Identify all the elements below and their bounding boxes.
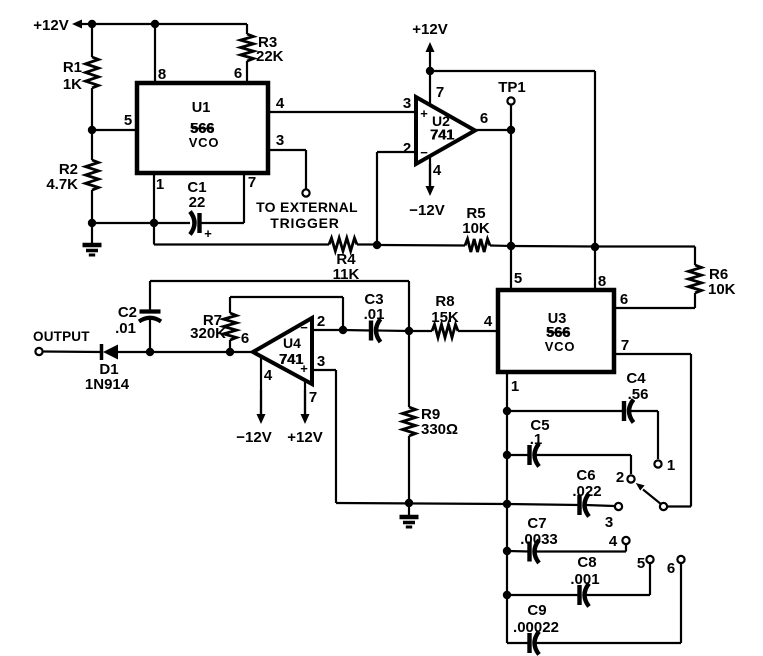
ground symbol left [83,245,102,255]
svg-text:3: 3 [605,514,613,531]
+12V supply label top-left [33,17,92,34]
svg-text:15K: 15K [431,309,459,326]
svg-text:.56: .56 [628,386,649,403]
resistor R1 [63,57,99,93]
switch contact 4 [609,533,630,550]
pin label 1 U1 [156,176,164,193]
wire ground stem [91,223,93,245]
wire R7 rail drop [342,297,344,330]
wire C1 to pin7 [202,222,245,224]
wire U1 pin3 horizontal [268,149,306,151]
svg-text:330Ω: 330Ω [421,421,458,438]
wire U2 pin2 vertical [376,152,378,245]
wire U4 pin2 to node [312,329,343,331]
svg-text:C7: C7 [527,515,546,532]
svg-text:3: 3 [317,353,325,370]
pin label 3 U2 [403,95,411,112]
wire C4 to contact1 [630,411,658,459]
svg-text:OUTPUT: OUTPUT [33,329,90,344]
wire right rail vertical [594,71,596,247]
svg-text:8: 8 [158,66,166,83]
svg-text:5: 5 [124,112,132,129]
node R4-R5 junction [373,241,381,249]
terminal OUTPUT [35,348,42,355]
wire U3 pin1 bus [506,372,508,643]
node ground junction left [88,219,96,227]
wire R4 node to R5 [377,244,465,247]
svg-text:1K: 1K [63,76,82,93]
pin label 7 U4 [309,389,317,406]
wire C9 row left [507,642,529,644]
wire top +12V rail [90,23,247,25]
ground symbol center [400,517,419,527]
resistor R5 [462,205,490,252]
resistor R2 [46,160,98,193]
switch contact 3 [605,503,622,531]
pin label 8 U1 [158,66,166,83]
svg-text:TRIGGER: TRIGGER [270,215,339,231]
pin label 4 U3 [484,313,493,330]
wire C2 top rail [150,280,409,282]
node +12V junction U2 [426,67,434,75]
svg-text:+12V: +12V [287,429,322,446]
svg-text:4: 4 [276,95,285,112]
svg-text:.00022: .00022 [513,619,559,636]
switch pole [660,503,667,510]
capacitor C5 [530,417,550,467]
pin label 4 U4 [264,367,273,384]
svg-text:1: 1 [156,176,164,193]
wire U1 pin4 to U2 pin3 [268,111,416,113]
node junction rail-R1 [88,20,96,28]
svg-text:7: 7 [309,389,317,406]
pin label 4 U1 [276,95,285,112]
svg-text:7: 7 [436,84,444,101]
wire pin 5 of U1 [92,129,139,131]
svg-text:10K: 10K [462,220,490,237]
wire R7 upper lead [229,297,231,313]
op-amp U4 [253,318,312,384]
svg-text:6: 6 [241,330,249,347]
switch contact 2 [616,469,635,486]
+12V supply U2 [412,21,447,71]
svg-text:3: 3 [276,132,284,149]
wire R9 bottom lead [408,436,410,503]
svg-text:6: 6 [234,65,242,82]
svg-text:+12V: +12V [412,21,447,38]
label OUTPUT [33,329,90,344]
wire C2 upper lead [149,281,151,312]
svg-text:320K: 320K [190,325,226,342]
-12V supply U4 [236,390,271,446]
wire R8 to U3 pin4 [458,330,498,332]
svg-text:VCO: VCO [545,339,576,354]
pin label 6 U4 [241,330,249,347]
terminal TP1 [507,97,514,104]
node C1 left junction [150,219,158,227]
svg-text:C4: C4 [626,370,646,387]
wire ground stem center [408,503,410,517]
node pin5 junction [88,126,96,134]
node C2 junction [146,348,154,356]
switch contact 1 [654,457,675,474]
wire R2 top lead [91,130,93,160]
node R7 junction [226,348,234,356]
switch arm S1 [636,483,662,505]
svg-text:.01: .01 [364,306,385,323]
wire U4 pin3 vertical [335,370,337,503]
svg-text:VCO: VCO [189,135,220,150]
svg-text:+: + [420,106,428,121]
pin label 6 U3 [620,291,628,308]
node junction rail-pin8 [151,20,159,28]
svg-text:2: 2 [403,140,411,157]
wire R9 top lead [408,331,410,407]
svg-text:−12V: −12V [236,429,271,446]
wire R7 lower lead [229,340,231,352]
svg-text:R1: R1 [63,59,82,76]
svg-text:4: 4 [609,533,618,550]
svg-text:2: 2 [317,313,325,330]
svg-text:4: 4 [433,162,442,179]
node U4 pin2 junction [339,326,347,334]
pin label 5 U3 [514,270,522,287]
svg-text:4: 4 [484,313,493,330]
resistor R3 [241,34,284,65]
wire C5 row left [507,454,529,456]
svg-text:7: 7 [621,337,629,354]
wire U4 pin7 stub [304,381,306,415]
svg-text:.022: .022 [572,483,601,500]
wire C6 row left [507,504,579,505]
svg-text:−12V: −12V [409,202,444,219]
svg-text:8: 8 [598,273,606,290]
pin label 7 U1 [248,174,256,191]
wire U2 pin4 stub [429,156,431,188]
svg-text:6: 6 [480,110,488,127]
wire U4 pin3 horizontal [312,369,336,371]
wire R3 top lead [246,24,248,34]
wire pole stub [667,505,691,507]
svg-text:22: 22 [189,194,206,211]
svg-text:U1: U1 [192,100,211,116]
svg-text:1: 1 [667,457,675,474]
op chip U1 box [137,83,268,173]
node C6 junction [503,500,511,508]
wire R6 to U3 pin6 [614,307,695,309]
svg-text:6: 6 [620,291,628,308]
pin label 3 U4 [317,353,325,370]
resistor R9 [403,406,459,438]
svg-text:4: 4 [264,367,273,384]
wire R4 row left [154,243,329,245]
switch contact 6 [667,556,685,577]
pin label 7 U3 [621,337,629,354]
svg-text:1N914: 1N914 [85,376,130,393]
capacitor C8 [570,554,599,607]
node C5 junction [503,451,511,459]
wire U3 pin7 horizontal [614,353,691,355]
wire U4 pin4 stub [260,356,262,415]
svg-text:741: 741 [430,128,454,144]
wire R4 to node [357,243,377,245]
wire U2 output [475,129,511,131]
wire R6 bottom lead [694,293,696,308]
capacitor C4 [624,370,648,423]
resistor R6 [689,265,736,298]
wire drop to R4 row [153,223,155,245]
svg-text:1: 1 [511,378,519,395]
svg-text:10K: 10K [708,281,736,298]
node C4 junction [503,407,511,415]
wire node to C3 [343,329,371,332]
capacitor C3 [364,291,385,342]
svg-text:C8: C8 [577,554,596,571]
resistor R7 [190,312,236,342]
svg-text:R8: R8 [435,293,454,310]
wire C8 row left [507,594,579,596]
pin label 6 U1 [234,65,242,82]
pin label 1 U3 [511,378,519,395]
capacitor C1 [187,179,212,241]
resistor R8 [431,293,459,338]
wire C7 to contact4 [536,545,627,552]
wire R3 to pin6 [246,61,248,85]
svg-text:741: 741 [279,352,303,368]
wire C8 to contact5 [586,564,651,595]
pin label 2 U4 [317,313,325,330]
wire R1 top lead [91,24,93,57]
capacitor C2 [115,304,161,337]
label TP1 [498,79,526,96]
svg-text:7: 7 [248,174,256,191]
svg-text:.01: .01 [115,320,136,337]
resistor R4 [329,238,360,283]
+12V supply U4 [287,390,322,446]
-12V supply U2 [409,164,444,219]
svg-text:3: 3 [403,95,411,112]
svg-text:+12V: +12V [33,17,68,34]
svg-text:TO EXTERNAL: TO EXTERNAL [256,199,358,215]
wire rail node link [511,245,595,248]
wire C6 to contact3 [586,505,615,506]
wire R6 top lead [694,247,696,266]
svg-text:4.7K: 4.7K [46,176,78,193]
wire U2 pin7 stub [429,71,431,107]
pin label 2 U2 [403,140,411,157]
svg-text:6: 6 [667,560,675,577]
wire U1 pin1 vertical [153,173,155,223]
svg-text:C6: C6 [576,467,595,484]
svg-text:C2: C2 [118,304,137,321]
wire C3 to node [377,329,409,332]
svg-text:.1: .1 [530,431,543,448]
label TO EXTERNAL TRIGGER [256,199,358,231]
wire U1 pin7 vertical [243,173,245,223]
pin label 7 U2 [436,84,444,101]
pin label 5 U1 [124,112,132,129]
wire U2 pin2 horizontal [377,151,417,153]
pin label 6 U2 [480,110,488,127]
wire R1 to pin5 node [91,88,93,130]
wire U3 pin8 vertical [594,247,596,290]
wire C4 row [507,410,624,412]
svg-text:C9: C9 [527,602,546,619]
wire ground-node to C1 [92,222,190,224]
node rail junction [591,243,599,251]
wire trigger vertical [305,150,307,189]
svg-text:5: 5 [514,270,522,287]
node U2 output junction [507,126,515,134]
wire C2 rail drop [408,281,410,331]
svg-text:−: − [420,145,428,160]
pin label 8 U3 [598,273,606,290]
wire diode to U4 output [117,351,254,353]
wire switch pole vertical [690,354,692,507]
svg-text:22K: 22K [256,48,284,65]
terminal to external trigger [302,189,309,196]
node ground row junction [405,499,413,507]
wire pin8 vertical [154,24,156,85]
op chip U3 box [498,290,614,372]
wire output to diode [43,350,101,353]
node C7 junction [503,547,511,555]
wire +12V to right rail [430,70,595,72]
wire C9 to contact6 [536,564,682,643]
wire TP1 node to U3 pin5 [510,130,512,290]
svg-text:−: − [300,320,308,335]
svg-text:5: 5 [637,555,645,572]
wire C5 to contact2 [536,455,632,474]
svg-text:TP1: TP1 [498,79,526,96]
diode D1 1N914 [85,344,130,393]
wire rail to R6 [595,245,695,247]
wire C2 lower lead [149,319,151,352]
wire C7 row left [507,550,529,553]
svg-text:2: 2 [616,469,624,486]
wire ground row [336,503,507,504]
capacitor C7 [520,515,558,563]
wire TP1 stem [510,105,512,130]
pin label 4 U2 [433,162,442,179]
node C8 junction [503,591,511,599]
svg-text:.001: .001 [570,571,599,588]
svg-text:U4: U4 [283,335,301,351]
op-amp U2 [416,97,475,164]
node C3-R8 junction [405,327,413,335]
capacitor C6 [572,467,601,517]
wire R2 to ground node [91,190,93,223]
svg-text:+: + [204,226,212,241]
wire R5 to node [490,244,511,247]
pin label 3 U1 [276,132,284,149]
capacitor C9 [513,602,559,655]
svg-text:.0033: .0033 [520,531,558,548]
node R5 junction [507,242,515,250]
wire node to R8 [409,330,432,332]
switch contact 5 [637,555,654,572]
wire R7 top rail [230,296,343,298]
